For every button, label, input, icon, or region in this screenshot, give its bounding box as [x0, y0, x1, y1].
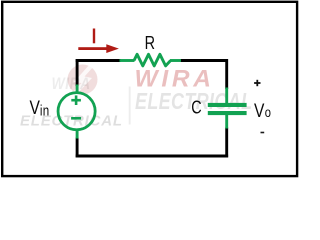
capacitor C bottom plate	[208, 111, 247, 115]
wire bottom segment	[76, 155, 228, 158]
wire top left segment	[76, 59, 121, 62]
label + polarity of Vo	[254, 80, 260, 86]
wire: capacitor top lead	[225, 88, 228, 105]
capacitor C top plate	[208, 103, 247, 107]
svg-text:C: C	[191, 97, 201, 118]
svg-text:R: R	[145, 32, 155, 53]
current label I	[93, 29, 95, 44]
wire: resistor right lead	[170, 59, 181, 62]
current arrow	[78, 44, 119, 53]
resistor R zigzag	[134, 54, 171, 66]
label - polarity of Vo	[261, 132, 265, 134]
wire: resistor left lead	[120, 59, 135, 62]
voltage source Vin	[58, 93, 95, 130]
wire right lower segment	[225, 128, 228, 158]
wire: source bottom lead	[76, 129, 79, 138]
wire left upper segment	[76, 59, 79, 86]
wire: source top lead	[76, 85, 79, 94]
wire left lower segment	[76, 138, 79, 158]
wire top right segment	[180, 61, 227, 90]
wire: capacitor bottom lead	[225, 115, 228, 129]
svg-text:WIRA: WIRA	[52, 75, 91, 93]
